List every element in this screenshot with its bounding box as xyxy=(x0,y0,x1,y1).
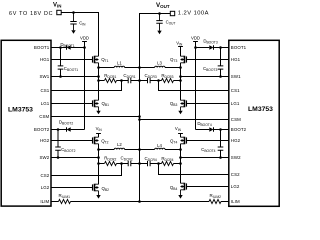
svg-text:HG1: HG1 xyxy=(40,57,50,62)
wire VOUT rail top xyxy=(140,14,171,68)
transistor Q_B2 xyxy=(92,184,94,190)
svg-text:L2: L2 xyxy=(117,142,122,147)
capacitor C_BOOT2 xyxy=(57,130,59,158)
wire SW4 node vertical xyxy=(180,144,182,183)
node SW3-pin xyxy=(179,75,182,78)
inductor L4 xyxy=(140,149,181,151)
node VDD/BOOT3 xyxy=(194,46,197,49)
svg-text:BOOT2: BOOT2 xyxy=(231,127,247,132)
node rail-CSM right xyxy=(138,118,141,121)
wire CS2 right xyxy=(159,164,229,175)
wire Q_B2 drain xyxy=(98,164,100,185)
node C_BOOT3/SW xyxy=(219,75,222,78)
svg-text:SW1: SW1 xyxy=(39,74,49,79)
IC U2 LM3753 (right controller) xyxy=(229,40,279,206)
wire SW1 pin line xyxy=(51,76,99,78)
wire LG2 left xyxy=(51,187,92,189)
node VDD/BOOT1 xyxy=(83,46,86,49)
svg-text:CS2: CS2 xyxy=(231,172,240,177)
wire HG1 left xyxy=(51,59,92,61)
resistor R_DCR4 xyxy=(159,163,181,165)
wire CSM right xyxy=(140,119,229,121)
capacitor C_DCR1 xyxy=(122,80,140,82)
inductor L2 xyxy=(99,149,140,151)
capacitor C_IN xyxy=(73,13,75,22)
svg-text:HG1: HG1 xyxy=(231,57,241,62)
inductor L1 xyxy=(99,67,140,69)
capacitor C_DCR3 xyxy=(140,80,159,82)
wire CS1 right xyxy=(159,81,229,91)
VDD tap phase1 + vertical to BOOT2 xyxy=(82,42,87,130)
wire VOUT rail (center vertical) xyxy=(139,68,141,202)
node C_DCR4/R_DCR4 junction xyxy=(157,162,160,165)
node VIN/C_IN junction xyxy=(72,11,75,14)
transistor Q_B4 xyxy=(186,183,188,189)
node rail-L2/L4 xyxy=(138,148,141,151)
capacitor C_BOOT4 xyxy=(220,130,222,158)
resistor R_DCR1 xyxy=(99,80,122,82)
resistor R_ILIM2 xyxy=(209,199,221,203)
svg-text:1.2V 100A: 1.2V 100A xyxy=(178,10,209,16)
svg-text:VIN: VIN xyxy=(53,2,61,8)
wire HG2 right xyxy=(186,140,229,142)
node rail-C_DCR2/4 xyxy=(138,162,141,165)
wire LG1 right xyxy=(186,103,229,105)
node SW2-L2 xyxy=(97,148,100,151)
svg-text:SW2: SW2 xyxy=(231,155,241,160)
node rail-L1/L3 xyxy=(138,66,141,69)
VIN tap Q_T2 xyxy=(96,134,101,138)
wire BOOT1 right xyxy=(196,47,229,49)
wire SW1 node vertical xyxy=(98,63,100,100)
node SW3-RDCR3 xyxy=(179,79,182,82)
wire CS2 left xyxy=(51,164,122,176)
svg-text:CSM: CSM xyxy=(231,117,241,122)
wire SW4 pin line xyxy=(181,157,229,159)
wire BOOT2 right xyxy=(196,129,229,131)
ground below Q_B3 xyxy=(180,107,182,111)
VOUT output terminal xyxy=(170,11,174,15)
wire Q_B1 drain xyxy=(98,81,100,101)
svg-text:LG1: LG1 xyxy=(231,101,240,106)
node rail-ILIM bus xyxy=(138,200,141,203)
svg-text:BOOT2: BOOT2 xyxy=(34,127,50,132)
transistor Q_B1 xyxy=(92,100,94,106)
capacitor C_DCR2 xyxy=(122,163,140,165)
svg-text:CSM: CSM xyxy=(39,114,49,119)
svg-text:ILIM: ILIM xyxy=(40,199,49,204)
svg-text:L4: L4 xyxy=(157,143,162,148)
wire Q_B4 drain xyxy=(180,164,182,184)
svg-text:VOUT: VOUT xyxy=(156,2,170,9)
svg-text:LG2: LG2 xyxy=(41,185,50,190)
svg-text:6V TO 18V DC: 6V TO 18V DC xyxy=(9,11,53,17)
diode D_BOOT2 xyxy=(66,127,68,132)
ground below C_OUT xyxy=(159,23,161,30)
node rail-C_DCR1/3 xyxy=(138,79,141,82)
svg-text:LG2: LG2 xyxy=(231,184,240,189)
svg-text:HG2: HG2 xyxy=(231,138,241,143)
wire HG2 left xyxy=(51,140,92,142)
inductor L3 xyxy=(140,67,181,69)
svg-text:L3: L3 xyxy=(157,61,162,66)
VIN tap Q_T3 xyxy=(178,47,183,57)
svg-text:HG2: HG2 xyxy=(40,138,50,143)
ground below Q_B2 xyxy=(98,191,100,195)
svg-text:CS2: CS2 xyxy=(40,173,49,178)
transistor Q_B3 xyxy=(186,100,188,106)
wire SW3 node vertical xyxy=(180,63,182,100)
transistor Q_T1 xyxy=(92,56,94,62)
IC U1 LM3753 (left controller) xyxy=(1,40,51,206)
node SW2-pin xyxy=(97,156,100,159)
wire SW2 node vertical xyxy=(98,144,100,184)
capacitor C_BOOT3 xyxy=(220,48,222,77)
VIN tap Q_T4 xyxy=(178,134,183,138)
svg-text:BOOT1: BOOT1 xyxy=(231,45,247,50)
svg-text:VDD: VDD xyxy=(80,35,89,40)
node C_DCR3/R_DCR3 junction xyxy=(157,79,160,82)
node BOOT3/C_BOOT3 xyxy=(219,46,222,49)
ground below Q_B4 xyxy=(180,190,182,195)
resistor R_DCR3 xyxy=(159,80,181,82)
node rail-CSM left xyxy=(138,115,141,118)
node SW1-RDCR1 xyxy=(97,79,100,82)
svg-text:ILIM: ILIM xyxy=(231,199,240,204)
svg-text:CS1: CS1 xyxy=(40,88,49,93)
wire HG1 right xyxy=(186,59,229,61)
node BOOT1/C_BOOT1 xyxy=(59,46,62,49)
wire SW3 pin line xyxy=(181,76,229,78)
node SW2-RDCR2 xyxy=(97,162,100,165)
wire VIN terminal to Q_T1 drain xyxy=(61,13,98,57)
node SW4-pin xyxy=(179,156,182,159)
node C_BOOT2/SW2 xyxy=(57,156,60,159)
transistor Q_T3 xyxy=(186,56,188,62)
transistor Q_T4 xyxy=(186,137,188,143)
VIN input terminal xyxy=(57,10,61,14)
svg-text:VDD: VDD xyxy=(191,35,200,40)
diode D_BOOT3 xyxy=(213,45,215,50)
capacitor C_BOOT1 xyxy=(60,48,62,77)
diode D_BOOT1 xyxy=(66,45,68,50)
wire BOOT1 left xyxy=(51,47,85,49)
wire CSM left xyxy=(51,116,140,118)
ground below C_IN xyxy=(73,24,75,30)
svg-text:LM3753: LM3753 xyxy=(248,106,273,113)
node R_DCR1/C_DCR1 junction xyxy=(120,79,123,82)
capacitor C_DCR4 xyxy=(140,163,159,165)
ground below Q_B1 xyxy=(98,107,100,111)
svg-text:L1: L1 xyxy=(117,61,122,66)
capacitor C_OUT xyxy=(159,14,161,21)
wire SW2 pin line xyxy=(51,157,99,159)
transistor Q_T2 xyxy=(92,137,94,143)
node SW1-pin xyxy=(97,75,100,78)
node SW4-RDCR4 xyxy=(179,162,182,165)
diode D_BOOT4 xyxy=(213,127,215,132)
wire LG2 right xyxy=(186,186,229,188)
node SW1-L1 xyxy=(97,66,100,69)
resistor R_ILIM1 xyxy=(59,199,71,203)
node SW4-L4 xyxy=(179,148,182,151)
svg-text:SW2: SW2 xyxy=(39,155,49,160)
wire LG1 left xyxy=(51,103,92,105)
svg-text:SW1: SW1 xyxy=(231,74,241,79)
svg-text:LM3753: LM3753 xyxy=(8,106,33,113)
svg-text:CS1: CS1 xyxy=(231,88,240,93)
node R_DCR2/C_DCR2 junction xyxy=(120,162,123,165)
node BOOT2/C_BOOT2 xyxy=(57,128,60,131)
svg-text:LG1: LG1 xyxy=(41,101,50,106)
resistor R_DCR2 xyxy=(99,163,122,165)
node SW3-L3 xyxy=(179,66,182,69)
wire CS1 left xyxy=(51,81,122,91)
wire Q_B3 drain xyxy=(180,81,182,101)
svg-text:BOOT1: BOOT1 xyxy=(34,45,50,50)
node BOOT4/C_BOOT4 xyxy=(219,128,222,131)
wire ILIM bus xyxy=(51,201,229,203)
node C_BOOT1/SW1 xyxy=(59,75,62,78)
wire BOOT2 left xyxy=(51,129,85,131)
node VOUT/C_OUT junction xyxy=(158,12,161,15)
node C_BOOT4/SW xyxy=(219,156,222,159)
VDD tap phase3 + vertical to BOOT2 xyxy=(193,42,198,130)
